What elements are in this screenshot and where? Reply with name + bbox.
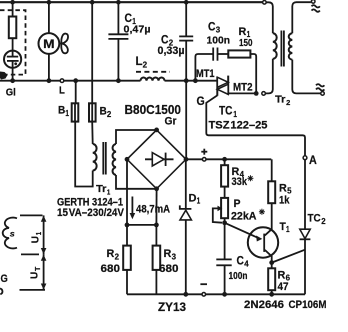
svg-text:M: M: [43, 37, 54, 51]
svg-text:B: B: [100, 106, 107, 118]
transformer Tr1 core: [103, 142, 106, 175]
junction dot top-left: [10, 0, 15, 5]
junction dot C1 top: [116, 0, 121, 5]
left margin arc fragment: [0, 289, 2, 295]
wire emitter P to T1: [225, 223, 259, 238]
svg-text:22kA: 22kA: [231, 210, 257, 222]
dimension tick bottom: [20, 289, 46, 291]
resistor R1: [228, 50, 250, 57]
junction dot MT2 node: [254, 91, 259, 96]
svg-text:P: P: [234, 198, 241, 210]
wire Tr1 secondary top to bridge: [116, 130, 157, 144]
svg-text:3: 3: [172, 252, 177, 261]
svg-text:2: 2: [321, 217, 326, 226]
dimension tick middle: [21, 253, 39, 255]
transformer Tr2 core: [281, 31, 284, 67]
svg-text:R: R: [164, 248, 172, 260]
junction dot bridge left: [125, 157, 130, 162]
fuse B1: [72, 103, 79, 121]
wire motor to bottom rail: [48, 54, 50, 81]
motor M: [39, 33, 60, 54]
svg-text:100n: 100n: [229, 271, 248, 282]
label minus: [200, 283, 207, 285]
dimension tick top: [20, 214, 43, 216]
junction dot P bottom: [222, 220, 227, 225]
junction dot D1 bottom: [183, 292, 188, 297]
svg-text:2: 2: [286, 98, 290, 107]
svg-text:G: G: [197, 94, 205, 108]
wire bottom return rail: [127, 293, 305, 295]
svg-text:L: L: [136, 54, 143, 68]
resistor (lamp series, in dashed box): [9, 17, 16, 39]
wire MT2 to junction: [228, 92, 254, 94]
svg-text:T: T: [33, 266, 42, 271]
svg-text:1: 1: [65, 109, 69, 118]
svg-text:100n: 100n: [207, 36, 231, 47]
thyristor TC2: [300, 160, 311, 295]
svg-text:MT2: MT2: [233, 82, 253, 94]
junction dot Gl bottom: [10, 78, 15, 83]
svg-text:2N2646: 2N2646: [244, 299, 284, 311]
junction dot R3 top: [154, 223, 159, 228]
svg-text:0,47µ: 0,47µ: [124, 25, 151, 36]
wire resistor to lamp: [12, 38, 14, 51]
svg-text:1: 1: [197, 197, 201, 206]
fan propeller: [59, 34, 68, 54]
svg-text:T: T: [280, 221, 286, 233]
triac TC1: [217, 76, 228, 96]
wire Tr2 secondary top to terminal: [292, 2, 311, 33]
svg-text:TSZ 122–25: TSZ 122–25: [209, 119, 268, 131]
svg-text:3: 3: [216, 26, 221, 35]
junction dot C1 bottom: [116, 78, 121, 83]
terminal minus (open circle): [202, 293, 206, 297]
svg-text:2: 2: [107, 110, 112, 119]
svg-text:TC: TC: [219, 106, 233, 118]
svg-text:✳: ✳: [259, 208, 266, 217]
svg-text:G: G: [1, 273, 9, 285]
svg-text:CP106M: CP106M: [289, 299, 327, 311]
svg-text:Tr: Tr: [96, 184, 107, 195]
junction dot base1 node: [269, 260, 274, 265]
wire DC+ rail to R4/R5: [186, 158, 271, 160]
svg-text:Tr: Tr: [275, 95, 286, 106]
junction dot B2 top rail: [90, 0, 95, 5]
transformer Tr1 secondary winding: [113, 144, 116, 175]
glow lamp Gl: [4, 51, 21, 68]
svg-text:D: D: [189, 192, 197, 204]
svg-text:680: 680: [159, 263, 179, 275]
left margin coil fragment s: [3, 218, 17, 249]
svg-text:ZY13: ZY13: [158, 301, 187, 314]
resistor R2: [123, 225, 131, 294]
resistor R3: [153, 225, 161, 294]
wire R3 node to bridge bottom: [155, 189, 157, 225]
svg-text:C: C: [208, 19, 216, 33]
label plus: [201, 149, 207, 155]
wire terminal to Tr2 primary top: [266, 2, 273, 33]
svg-text:R: R: [239, 26, 247, 38]
unijunction transistor T1: [248, 203, 278, 262]
svg-text:0,33µ: 0,33µ: [158, 45, 185, 57]
AC squiggle right: [316, 84, 324, 91]
dimension arrow U1: [41, 215, 47, 254]
svg-text:1k: 1k: [279, 195, 290, 207]
junction dot motor top: [47, 0, 52, 5]
svg-text:U: U: [29, 272, 41, 279]
bridge rectifier B80C1500 diamond: [127, 130, 186, 189]
svg-text:U: U: [30, 236, 42, 243]
label UT (rotated): [29, 266, 42, 279]
junction dot bridge bottom: [154, 186, 159, 191]
dashed core line above L2: [136, 71, 170, 73]
wire gate TC1 to A: [206, 95, 305, 155]
dashed enclosure box around glow lamp: [0, 10, 26, 74]
svg-text:680: 680: [101, 263, 121, 275]
node A (open circle): [303, 156, 307, 160]
svg-text:1: 1: [286, 225, 290, 234]
resistor R5: [268, 159, 275, 203]
svg-text:TC: TC: [308, 213, 321, 225]
capacitor C3: [213, 48, 228, 61]
svg-text:47: 47: [278, 281, 289, 293]
wire B2 to Tr1 primary top: [91, 122, 94, 144]
svg-text:R: R: [107, 248, 115, 260]
svg-text:Gl: Gl: [6, 87, 16, 98]
svg-text:1: 1: [233, 110, 237, 119]
wire top mains rail: [0, 1, 263, 3]
svg-text:B: B: [58, 105, 65, 117]
wire lamp to bottom rail: [12, 68, 14, 81]
capacitor C4: [216, 223, 231, 294]
svg-text:C: C: [125, 11, 133, 25]
fuse B2: [89, 103, 96, 121]
junction dot C2 top: [184, 0, 189, 5]
svg-text:C: C: [161, 32, 169, 46]
node stub top-left: [12, 0, 14, 17]
svg-text:Gr: Gr: [165, 116, 178, 128]
svg-text:L: L: [59, 85, 65, 97]
svg-text:R: R: [279, 182, 287, 194]
svg-text:150: 150: [239, 38, 253, 49]
svg-text:2: 2: [143, 59, 148, 69]
svg-text:MT1: MT1: [196, 68, 215, 80]
current arrow 48,7mA: [130, 197, 136, 220]
svg-text:s: s: [10, 229, 15, 239]
svg-text:4: 4: [244, 260, 249, 269]
wire to Tr2 primary bottom: [266, 59, 273, 94]
wire bridge left corner down: [126, 159, 128, 225]
junction dot R6 bottom: [269, 292, 274, 297]
wire B1 to Tr1 primary bottom: [75, 122, 93, 187]
wire R1 to MT2 node: [250, 54, 256, 93]
junction dot C2 bottom: [184, 78, 189, 83]
label U1 (rotated): [30, 231, 43, 243]
svg-text:R: R: [278, 269, 286, 281]
AC squiggle top right: [312, 5, 320, 12]
transformer Tr2 secondary winding: [289, 33, 293, 59]
wire gate TC2: [272, 250, 305, 263]
svg-text:48,7mA: 48,7mA: [136, 204, 170, 216]
junction dot bridge top: [154, 127, 159, 132]
transformer Tr1 primary winding: [93, 144, 97, 171]
svg-text:A: A: [309, 153, 317, 167]
resistor R4: [221, 159, 228, 198]
terminal circle right: [321, 92, 325, 96]
wire snubber riser: [195, 54, 213, 81]
wire B1 branch: [75, 81, 77, 104]
wire bottom mains rail (node L): [0, 80, 217, 82]
wire Tr1 secondary bottom to bridge: [116, 175, 157, 189]
wire C2 node down to bridge + corner: [185, 81, 187, 160]
wire R2/R3 top: [127, 224, 156, 226]
svg-text:33k: 33k: [232, 176, 248, 188]
svg-text:2: 2: [115, 252, 120, 261]
transformer Tr2 primary winding: [273, 33, 277, 59]
junction dot motor bottom: [47, 78, 52, 83]
left margin blob fragment: [0, 72, 8, 80]
svg-text:15 VA–230/24V: 15 VA–230/24V: [57, 207, 125, 219]
junction dot R4 top: [222, 157, 227, 162]
junction dot C4 bottom: [222, 292, 227, 297]
terminal plus (open circle): [202, 158, 206, 162]
inductor L2: [141, 78, 165, 81]
zener diode D1: [180, 159, 192, 294]
junction dot R2 top: [125, 223, 130, 228]
terminal circle top right: [311, 0, 315, 3]
junction dot MT1 node: [193, 78, 198, 83]
resistor R6: [268, 263, 275, 295]
potentiometer P: [213, 198, 228, 223]
dimension arrow UT: [41, 254, 47, 290]
wire Tr2 secondary bottom to terminal: [292, 60, 320, 94]
capacitor C2: [179, 2, 193, 81]
bridge inner diode: [145, 153, 174, 166]
svg-text:✳: ✳: [247, 174, 254, 183]
terminal open circle MT2/Tr2: [262, 92, 266, 96]
wire B2 branch: [91, 2, 93, 103]
junction dot bridge right: [184, 157, 189, 162]
terminal open circle top rail / Tr2: [263, 1, 267, 5]
junction dot B1 top: [73, 78, 78, 83]
capacitor C1: [108, 2, 128, 81]
terminal L (open circle): [60, 79, 64, 83]
wire motor branch top: [48, 2, 50, 33]
